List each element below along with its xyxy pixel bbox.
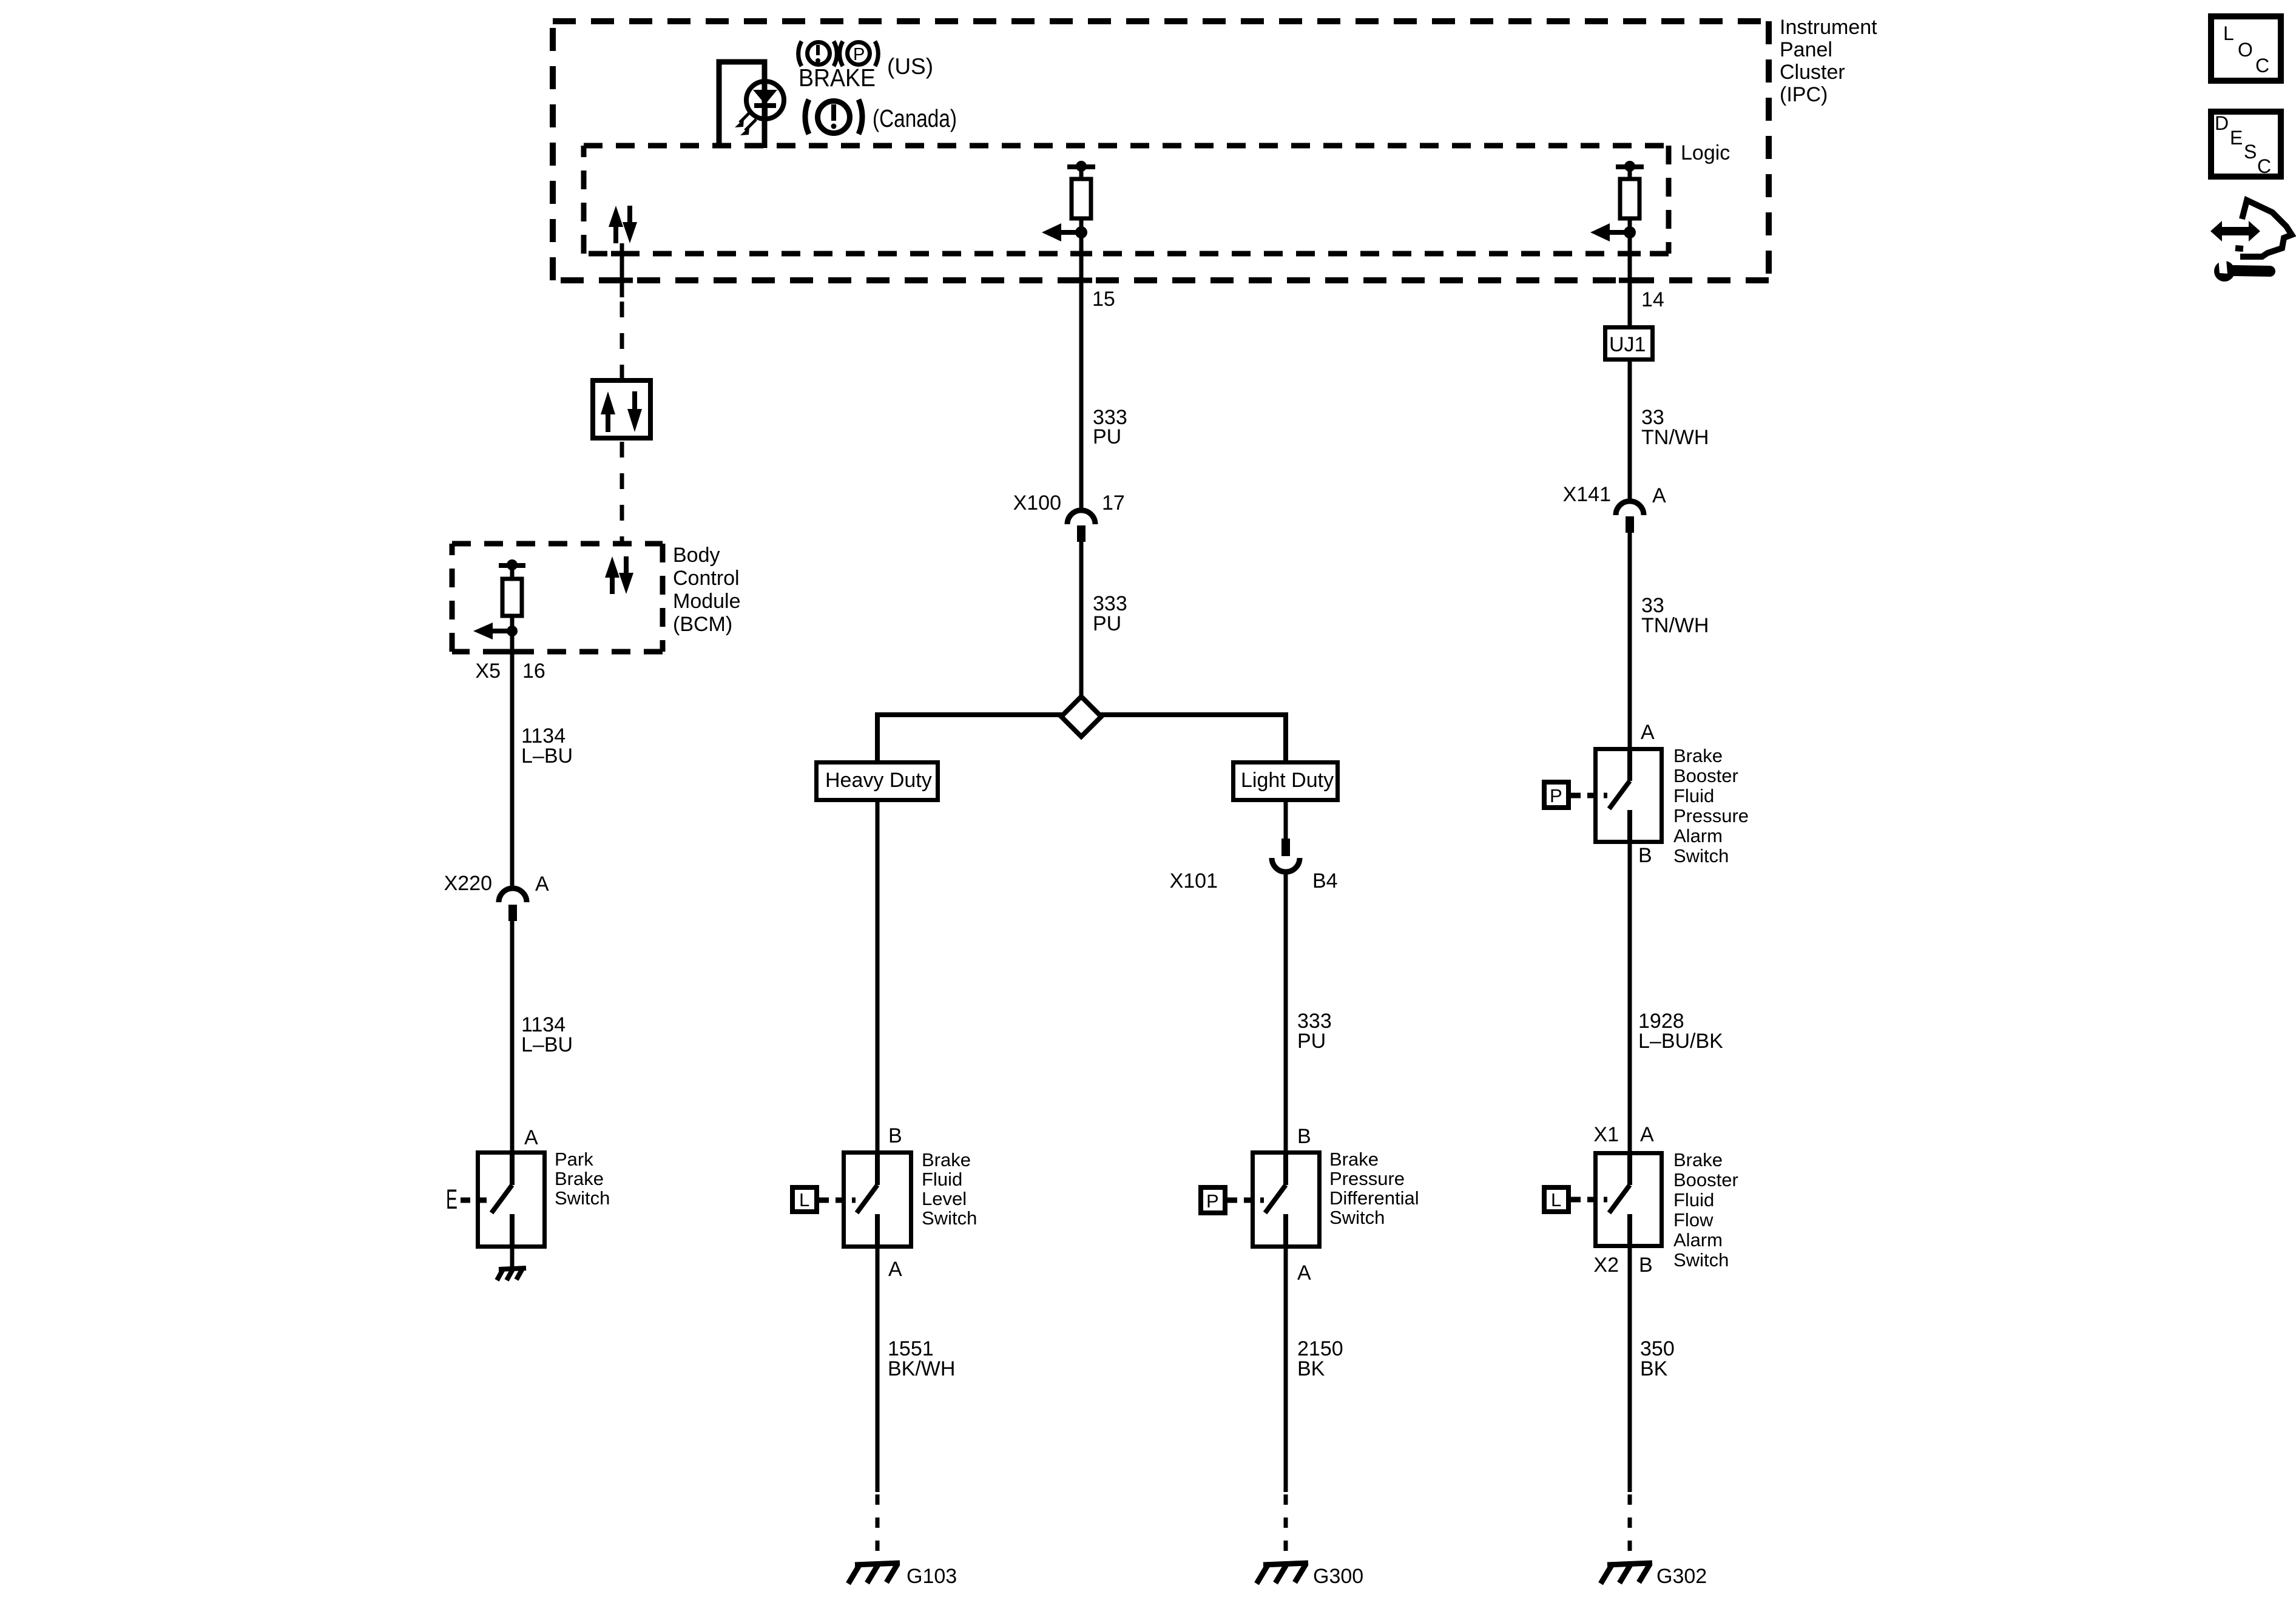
- connector X101: [1272, 839, 1300, 872]
- svg-text:X101: X101: [1170, 869, 1218, 893]
- svg-text:Alarm: Alarm: [1673, 825, 1723, 846]
- svg-text:PU: PU: [1093, 612, 1121, 635]
- US brake telltale icons: [799, 41, 933, 92]
- IPC pull-up resistor (pin 15 circuit): [1067, 161, 1095, 232]
- svg-text:Level: Level: [922, 1188, 967, 1209]
- svg-text:L: L: [799, 1189, 809, 1210]
- wire Light Duty to X101: [1284, 802, 1288, 839]
- Light Duty box: [1234, 763, 1338, 800]
- dashed comm wire to BCM: [620, 442, 624, 544]
- Logic dashed box: [584, 146, 1669, 254]
- svg-text:Switch: Switch: [555, 1187, 610, 1209]
- dashed ground lead: [1284, 1494, 1288, 1563]
- svg-text:Cluster: Cluster: [1780, 61, 1845, 84]
- wire pin 14 to UJ1: [1628, 232, 1632, 325]
- svg-text:Body: Body: [673, 544, 720, 567]
- svg-text:PU: PU: [1297, 1030, 1326, 1053]
- svg-text:Light Duty: Light Duty: [1241, 769, 1334, 792]
- svg-text:G302: G302: [1656, 1565, 1707, 1588]
- svg-text:L: L: [1551, 1189, 1561, 1210]
- svg-text:Switch: Switch: [1673, 845, 1729, 866]
- P actuator dashed link: [1227, 1198, 1264, 1203]
- svg-text:Flow: Flow: [1673, 1209, 1714, 1230]
- svg-text:UJ1: UJ1: [1609, 333, 1646, 356]
- svg-text:P: P: [853, 45, 865, 64]
- IPC logic input arrow (pin 14): [1590, 223, 1636, 241]
- svg-text:X1: X1: [1593, 1123, 1619, 1146]
- svg-text:TN/WH: TN/WH: [1641, 426, 1709, 449]
- ground G300: [1257, 1563, 1308, 1584]
- svg-text:A: A: [1641, 721, 1655, 744]
- wire differential switch to ground: [1284, 1249, 1288, 1492]
- svg-text:A: A: [1297, 1261, 1311, 1284]
- ground (park brake switch): [497, 1268, 526, 1280]
- BCM serial data arrows: [605, 556, 633, 594]
- ground G103: [848, 1563, 900, 1584]
- wire Heavy Duty to level switch: [876, 802, 880, 1151]
- svg-text:Booster: Booster: [1673, 765, 1738, 786]
- svg-text:TN/WH: TN/WH: [1641, 614, 1709, 637]
- wire BCM to X220: [510, 631, 515, 888]
- brake warning indicator lamp: [719, 62, 784, 148]
- svg-text:Control: Control: [673, 567, 740, 590]
- svg-text:B: B: [1639, 1254, 1653, 1277]
- lamp light rays: [735, 112, 756, 135]
- wire level switch to ground: [876, 1249, 880, 1492]
- svg-text:Heavy Duty: Heavy Duty: [825, 769, 932, 792]
- Heavy Duty box: [817, 763, 938, 800]
- svg-text:BK/WH: BK/WH: [888, 1357, 955, 1380]
- svg-text:L–BU: L–BU: [521, 744, 573, 768]
- svg-text:BK: BK: [1297, 1357, 1325, 1380]
- svg-text:BRAKE: BRAKE: [799, 64, 876, 92]
- svg-text:Brake: Brake: [1673, 745, 1723, 766]
- connector X141: [1616, 501, 1644, 533]
- svg-text:X220: X220: [444, 872, 492, 895]
- dashed ground lead: [876, 1494, 880, 1563]
- L actuator box: [1544, 1187, 1568, 1212]
- connector X220: [499, 888, 527, 921]
- wire pressure alarm to flow alarm switch: [1628, 844, 1632, 1151]
- adjustable component icon (hand with arrow and wrench): [2210, 200, 2292, 282]
- dashed ground lead: [1628, 1494, 1632, 1563]
- svg-text:P: P: [1206, 1190, 1219, 1212]
- LOC reference icon: [2211, 16, 2281, 81]
- IPC serial data arrows: [609, 206, 637, 243]
- svg-text:15: 15: [1092, 288, 1115, 311]
- tick at logic box edge: [1619, 251, 1641, 257]
- svg-text:B4: B4: [1312, 869, 1338, 893]
- svg-text:Pressure: Pressure: [1673, 805, 1749, 826]
- svg-text:O: O: [2238, 39, 2253, 61]
- svg-text:L–BU: L–BU: [521, 1033, 573, 1056]
- svg-text:Logic: Logic: [1681, 141, 1730, 164]
- svg-text:Module: Module: [673, 590, 741, 613]
- svg-text:16: 16: [522, 660, 545, 683]
- svg-text:L: L: [2223, 22, 2234, 44]
- Canada brake telltale icon: [805, 100, 957, 134]
- wire to Heavy Duty: [875, 712, 880, 760]
- branch wire (horizontal): [877, 712, 1286, 717]
- svg-text:Differential: Differential: [1329, 1187, 1419, 1209]
- svg-text:Panel: Panel: [1780, 38, 1832, 61]
- svg-text:(IPC): (IPC): [1780, 83, 1828, 106]
- park brake switch: [478, 1150, 545, 1249]
- svg-text:17: 17: [1102, 491, 1125, 515]
- svg-text:X5: X5: [475, 660, 501, 683]
- L actuator dashed link: [819, 1198, 856, 1203]
- svg-text:(Canada): (Canada): [873, 104, 957, 132]
- svg-text:(BCM): (BCM): [673, 613, 732, 636]
- DESC reference icon: [2211, 112, 2281, 177]
- svg-text:Brake: Brake: [555, 1168, 604, 1189]
- svg-text:A: A: [1640, 1123, 1654, 1146]
- svg-text:X100: X100: [1013, 491, 1061, 515]
- svg-text:C: C: [2255, 55, 2269, 76]
- wire X100 to splice: [1079, 542, 1084, 701]
- svg-text:Brake: Brake: [1673, 1149, 1723, 1170]
- E actuator dashed link: [461, 1198, 489, 1203]
- svg-text:P: P: [1550, 785, 1562, 806]
- svg-text:A: A: [888, 1258, 902, 1281]
- IPC dashed box: [553, 21, 1769, 280]
- wire UJ1 to X141: [1628, 362, 1632, 501]
- svg-text:BK: BK: [1640, 1357, 1668, 1380]
- svg-text:Switch: Switch: [922, 1207, 977, 1229]
- wire (comm stub crossing IPC boundary): [620, 243, 624, 297]
- splice pack UJ1: [1606, 328, 1653, 360]
- wire flow alarm switch to ground: [1628, 1248, 1632, 1492]
- BCM logic input arrow: [473, 623, 518, 640]
- tick at IPC box edge: [611, 278, 633, 283]
- wire to Light Duty: [1283, 712, 1288, 760]
- svg-text:14: 14: [1641, 288, 1664, 311]
- P actuator dashed link: [1571, 793, 1607, 798]
- brake fluid level switch: [844, 1151, 911, 1249]
- connector X100: [1067, 510, 1095, 542]
- tick at IPC box edge: [1619, 278, 1641, 283]
- svg-text:Fluid: Fluid: [922, 1169, 962, 1190]
- wire X141 to pressure alarm switch: [1628, 533, 1632, 747]
- wire X101 to differential switch: [1284, 872, 1288, 1151]
- svg-text:PU: PU: [1093, 425, 1121, 448]
- svg-text:C: C: [2257, 155, 2271, 177]
- svg-text:A: A: [535, 873, 549, 896]
- wire X220 to park brake switch: [510, 921, 515, 1150]
- svg-text:E: E: [446, 1184, 458, 1215]
- svg-text:B: B: [1297, 1125, 1311, 1148]
- ground lead (park brake): [510, 1249, 515, 1269]
- svg-text:E: E: [2230, 127, 2243, 149]
- svg-text:Switch: Switch: [1329, 1207, 1385, 1228]
- svg-text:X2: X2: [1593, 1254, 1619, 1277]
- tick at IPC box edge: [1070, 278, 1092, 283]
- svg-text:X141: X141: [1563, 483, 1611, 506]
- svg-text:Fluid: Fluid: [1673, 785, 1714, 806]
- brake pressure differential switch: [1253, 1151, 1320, 1249]
- tick at logic box edge: [1070, 251, 1092, 257]
- brake booster fluid flow alarm switch: [1596, 1151, 1662, 1248]
- P actuator box: [1201, 1187, 1225, 1213]
- svg-text:(US): (US): [887, 54, 933, 79]
- tick at logic box edge: [611, 251, 633, 257]
- BCM dashed box: [452, 544, 663, 652]
- brake booster fluid pressure alarm switch: [1596, 747, 1662, 844]
- IPC logic input arrow (pin 15): [1042, 223, 1087, 241]
- svg-text:Fluid: Fluid: [1673, 1189, 1714, 1210]
- svg-text:G103: G103: [907, 1565, 957, 1588]
- svg-text:Booster: Booster: [1673, 1169, 1738, 1190]
- svg-text:D: D: [2215, 112, 2229, 134]
- dashed comm wire to serial data box: [620, 302, 624, 380]
- svg-text:Switch: Switch: [1673, 1249, 1729, 1271]
- svg-text:A: A: [1652, 484, 1666, 507]
- svg-text:B: B: [888, 1124, 902, 1147]
- svg-text:L–BU/BK: L–BU/BK: [1638, 1030, 1723, 1053]
- svg-text:A: A: [524, 1126, 538, 1149]
- L actuator dashed link: [1571, 1197, 1607, 1203]
- svg-text:B: B: [1638, 844, 1652, 867]
- tick at BCM box edge: [501, 649, 523, 655]
- ground G302: [1601, 1563, 1652, 1584]
- svg-text:Brake: Brake: [1329, 1149, 1379, 1170]
- serial data link box: [593, 380, 650, 438]
- BCM output driver resistor: [499, 559, 525, 631]
- svg-text:Pressure: Pressure: [1329, 1168, 1405, 1189]
- svg-text:G300: G300: [1313, 1565, 1363, 1588]
- P actuator box: [1544, 782, 1568, 808]
- svg-text:Instrument: Instrument: [1780, 16, 1877, 39]
- svg-text:Park: Park: [555, 1149, 593, 1170]
- IPC pull-up resistor (pin 14 circuit): [1616, 161, 1644, 232]
- splice diamond: [1061, 697, 1101, 737]
- svg-text:Brake: Brake: [922, 1149, 971, 1170]
- svg-text:S: S: [2244, 141, 2257, 163]
- wire pin 15 to X100: [1079, 232, 1084, 510]
- svg-text:Alarm: Alarm: [1673, 1229, 1723, 1251]
- L actuator box: [792, 1187, 817, 1212]
